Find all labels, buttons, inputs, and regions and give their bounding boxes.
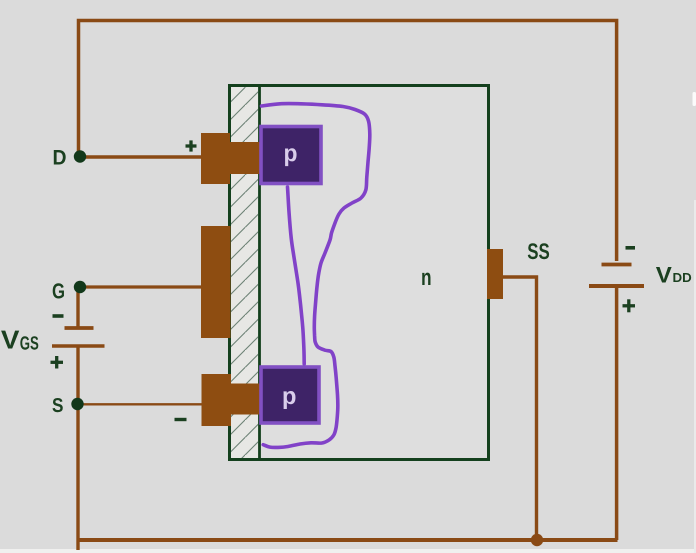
p region top [261,127,321,184]
label VGS [1,331,19,349]
wire top loop D to VDD [79,21,617,262]
battery VDD positive plate (long) [589,284,644,288]
source electrode stub [231,384,260,415]
channel boundary line [258,87,261,458]
node G [74,281,86,293]
gate electrode [201,226,231,338]
wire VGS battery through S down to bottom [76,346,79,550]
plus sign below VGS [51,356,64,369]
source electrode [202,374,232,426]
label SS [528,243,549,259]
depletion boundary inner curve [288,187,305,364]
drain electrode [201,133,230,184]
drain electrode stub [230,142,260,174]
hatched channel stripe [231,87,258,458]
minus sign at source [175,418,187,421]
plus sign at drain [186,140,197,151]
label D [54,150,66,164]
wire VDD plus down to bottom wire [615,287,619,540]
minus sign at VDD [626,246,636,250]
bottom wire [77,538,618,542]
label S [52,398,62,412]
wire S to source electrode [77,403,202,405]
node S [71,398,83,410]
depletion boundary outer curve [262,104,370,448]
plus sign at VDD [623,299,636,312]
label n [422,273,430,285]
n-type body rectangle [230,86,489,460]
junction bottom wire [531,534,543,546]
minus sign above VGS [53,314,64,318]
wire G to gate electrode [79,285,202,288]
wire D to drain electrode [79,155,202,158]
node D [74,150,86,162]
label G [53,283,64,298]
p region bottom [261,367,319,423]
SS contact [487,249,503,299]
battery VGS positive plate (long) [52,344,105,348]
label p top [285,148,297,166]
battery VGS negative plate (short) [65,326,94,330]
wire G down to VGS battery [76,287,79,328]
battery VDD negative plate (short) [602,263,632,267]
label p bottom [284,391,296,409]
wire SS to bottom wire [502,277,537,540]
label VDD [656,267,672,282]
